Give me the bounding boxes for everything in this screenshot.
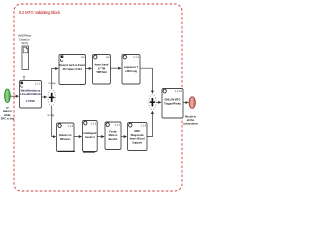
wire: junction 1 down to block B1	[52, 106, 56, 137]
wire: green oval to Main block	[10, 95, 18, 97]
Main block icon	[20, 82, 23, 85]
block B4: GMLAN diagnostics support	[128, 123, 148, 151]
wire: junction 1 up to block A	[52, 69, 58, 89]
svg-text:Main/Mandatory: Main/Mandatory	[21, 88, 41, 92]
block C: sequence	[122, 55, 140, 85]
svg-text:1.1.7: 1.1.7	[114, 123, 120, 127]
svg-text:w sig: w sig	[49, 81, 56, 85]
output oval (salmon)	[189, 97, 195, 109]
svg-text:Trigger/Parity: Trigger/Parity	[164, 101, 181, 105]
svg-text:Pin Value of Did: Pin Value of Did	[63, 68, 82, 71]
wire: GMLAN to output oval	[183, 102, 188, 104]
svg-text:se: se	[6, 107, 9, 110]
wire: junction 2 to GMLAN block	[156, 101, 161, 103]
svg-text:n/a: n/a	[106, 55, 110, 59]
svg-text:Result to: Result to	[185, 114, 197, 118]
svg-text:Verify: Verify	[21, 41, 29, 45]
svg-text:17 TM: 17 TM	[98, 66, 105, 70]
svg-text:+303 long: +303 long	[125, 69, 137, 73]
svg-text:Determ wich in Event: Determ wich in Event	[60, 64, 85, 67]
svg-text:bus/not: bus/not	[85, 135, 95, 139]
wire: B1 to B2	[74, 136, 82, 138]
svg-text:1.1.5: 1.1.5	[67, 124, 73, 128]
svg-text:Items Blood: Items Blood	[130, 137, 145, 141]
Main/Mandatory subsystem block	[20, 81, 42, 109]
block B1: Delete Lin Wireless	[57, 123, 75, 152]
svg-text:sequence 7: sequence 7	[124, 65, 139, 69]
enable tick above Main block	[23, 77, 25, 81]
svg-text:want in: want in	[3, 109, 12, 113]
svg-text:1.1.10: 1.1.10	[175, 89, 183, 93]
block B: frames passed	[93, 55, 111, 85]
svg-text:intellegent: intellegent	[83, 131, 96, 135]
svg-text:8.2 MTG Validating Block: 8.2 MTG Validating Block	[19, 10, 61, 15]
svg-text:w sig: w sig	[47, 113, 54, 117]
wire: Main block to junction 1	[42, 96, 47, 98]
svg-text:1.2.6: 1.2.6	[91, 122, 97, 126]
svg-text:Support: Support	[132, 141, 142, 145]
svg-text:Wireless: Wireless	[60, 137, 71, 141]
block B3: route meta	[105, 122, 121, 150]
svg-text:Lines/ECU/Block: Lines/ECU/Block	[20, 92, 41, 96]
dashed red boundary box	[14, 4, 182, 191]
svg-text:1.1.8: 1.1.8	[140, 124, 146, 128]
block B2: intelligent bus	[83, 121, 98, 152]
svg-text:n/a: n/a	[81, 55, 85, 59]
DocBlock (document block)	[22, 46, 29, 70]
green input oval	[5, 89, 11, 103]
svg-text:Festie: Festie	[109, 129, 117, 133]
wire: C right then down to junction 2	[140, 68, 152, 93]
svg-text:Diagnostic: Diagnostic	[131, 133, 145, 137]
block A: Determine which type	[59, 55, 86, 85]
wire: B3 to B4	[121, 136, 127, 138]
svg-text:while: while	[4, 113, 11, 117]
svg-text:SPC is low: SPC is low	[1, 116, 15, 120]
svg-text:all the: all the	[187, 118, 195, 122]
GMLAN MTG block	[162, 89, 183, 119]
wire: B4 right then up to junction 2	[147, 111, 152, 136]
svg-text:GMC: GMC	[134, 129, 140, 133]
svg-text:Bus/im: Bus/im	[109, 137, 118, 141]
svg-text:TMTGbit: TMTGbit	[96, 70, 107, 74]
junction 2 (dotted ellipse with plus)	[149, 95, 156, 110]
svg-text:subsystems: subsystems	[183, 122, 199, 126]
wire: A to B	[86, 67, 92, 69]
svg-text:Meta is: Meta is	[109, 133, 118, 137]
svg-text:2 TASK: 2 TASK	[26, 99, 35, 103]
svg-text:Items band: Items band	[95, 62, 109, 66]
doc icon inside DocBlock	[23, 47, 28, 53]
junction 1 (dotted ellipse with plus)	[48, 89, 55, 106]
svg-text:1.1.4: 1.1.4	[133, 55, 139, 59]
svg-text:Delete Lin: Delete Lin	[59, 133, 72, 137]
wire: B to C	[111, 67, 122, 69]
svg-text:1.1.1: 1.1.1	[35, 82, 41, 86]
svg-text:GMLAN MTG: GMLAN MTG	[165, 97, 181, 101]
wire: B2 to B3	[97, 136, 104, 138]
